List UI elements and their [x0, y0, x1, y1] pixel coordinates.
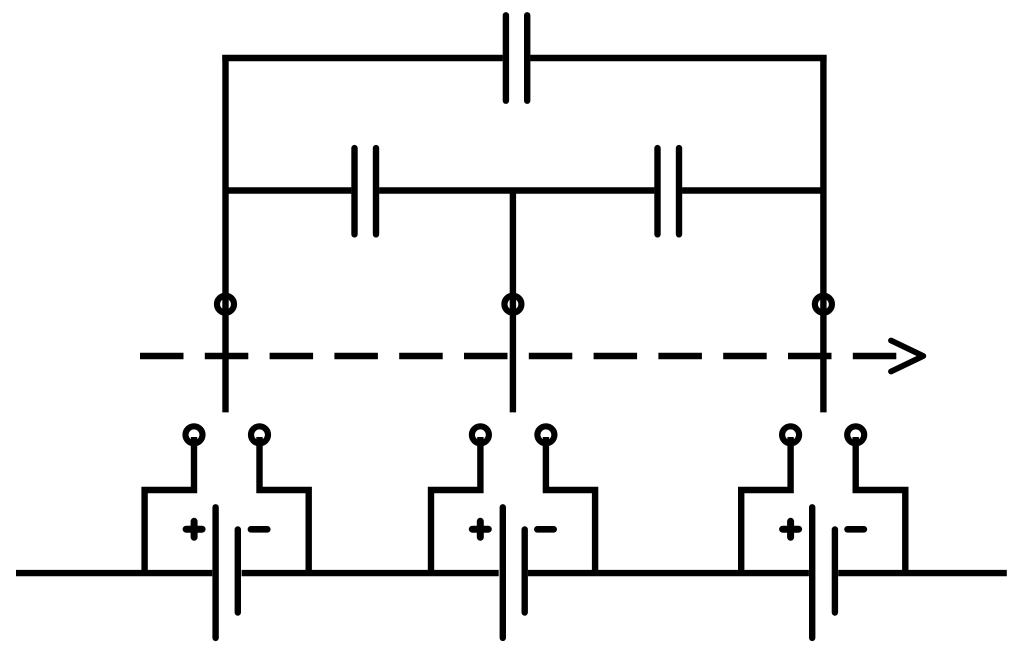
wire: top rail right segment from capacitor C1 — [530, 55, 826, 61]
battery BT2 plus label — [472, 521, 488, 537]
wire: battery BT1 negative lead (circle, down, right, down to bottom rail) — [260, 437, 309, 573]
wire: middle rail segment from left bus to capacitor C2 — [226, 187, 352, 193]
capacitor C1 (top coupling capacitor) — [506, 15, 527, 100]
capacitor C3 (right series capacitor) — [658, 148, 680, 234]
wire: bottom rail segment 3 (battery BT2 to battery BT3) — [528, 570, 809, 576]
node C (right terminal circle on right bus) — [815, 296, 832, 313]
wire: middle rail segment from capacitor C3 to right bus — [682, 187, 823, 193]
battery BT1 positive plate (long) — [212, 507, 218, 638]
wire: battery BT2 positive lead (circle, down, left, down to bottom rail) — [431, 437, 480, 573]
battery BT1 negative plate (short) — [235, 530, 241, 613]
wire: middle vertical bus from middle rail down through node B — [510, 191, 516, 413]
battery BT3 negative plate (short) — [832, 530, 838, 613]
node B (middle terminal circle on middle bus) — [504, 296, 521, 313]
wire: right vertical bus from top rail down through node C — [820, 55, 826, 412]
battery BT1 minus label — [251, 526, 267, 533]
battery BT2 negative plate (short) — [522, 530, 528, 613]
battery BT1 positive terminal circle — [186, 426, 203, 443]
wire: top rail left segment to capacitor C1 — [222, 55, 503, 61]
battery BT2 negative terminal circle — [537, 426, 554, 443]
dashed reference line (section boundary) — [140, 353, 896, 359]
battery BT1 plus label — [186, 521, 202, 537]
wire: battery BT2 negative lead (circle, down, right, down to bottom rail) — [546, 437, 595, 573]
wire: battery BT1 positive lead (circle, down, left, down to bottom rail) — [145, 437, 194, 573]
wire: middle rail segment between capacitor C2 and capacitor C3 — [379, 187, 654, 193]
wire: battery BT3 positive lead (circle, down, left, down to bottom rail) — [741, 437, 790, 573]
capacitor C2 (left series capacitor) — [355, 148, 377, 234]
wire: battery BT3 negative lead (circle, down, right, down to bottom rail) — [856, 437, 906, 573]
wire: left vertical bus from top rail down through node A — [222, 55, 228, 412]
battery BT3 minus label — [848, 526, 864, 533]
wire: bottom rail segment 4 (battery BT3 to right end) — [838, 570, 1007, 576]
node A (left terminal circle on left bus) — [217, 296, 234, 313]
battery BT2 positive terminal circle — [472, 426, 489, 443]
battery BT3 negative terminal circle — [847, 426, 864, 443]
battery BT2 positive plate (long) — [500, 507, 506, 638]
wire: bottom rail segment 2 (battery BT1 to battery BT2) — [242, 570, 499, 576]
arrowhead of dashed reference line — [891, 341, 923, 372]
wire: bottom rail segment 1 (left end to battery BT1) — [16, 570, 212, 576]
battery BT3 positive terminal circle — [782, 426, 799, 443]
battery BT3 plus label — [783, 521, 799, 537]
battery BT1 negative terminal circle — [251, 426, 268, 443]
battery BT3 positive plate (long) — [809, 507, 815, 638]
battery BT2 minus label — [537, 526, 553, 533]
